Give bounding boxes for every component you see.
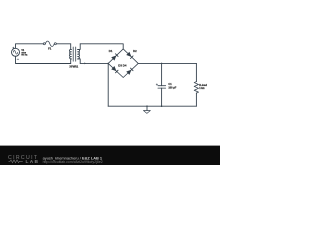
svg-text:100 µF: 100 µF [168, 87, 176, 90]
wire secondary top to bridge top [80, 44, 123, 49]
svg-text:D4: D4 [123, 64, 127, 68]
capacitor C1 plates [158, 86, 166, 88]
wire left vertex down to bottom rail [107, 63, 109, 106]
current arrow on secondary bottom wire [84, 63, 86, 65]
diode D4 (bottom vertex -> right vertex) [126, 68, 133, 75]
diode D2 (top vertex -> right vertex) [126, 52, 133, 59]
transformer XFMR1 primary [69, 44, 71, 64]
resistor R-load lead bottom [195, 93, 197, 106]
diode D3 (left vertex -> bottom vertex) [111, 66, 118, 73]
svg-text:LAB: LAB [26, 159, 40, 165]
svg-text:http://circuitlab.com/c8zt2u99: http://circuitlab.com/c8zt2u99kcfy2j8e2 [43, 160, 103, 164]
footer logo waveform [9, 160, 23, 163]
svg-text:D3: D3 [118, 64, 122, 68]
ground stub [146, 106, 148, 110]
svg-text:D2: D2 [133, 49, 137, 53]
wire secondary bottom to bridge left vertex [80, 62, 108, 64]
capacitor C1 branch top [161, 63, 163, 85]
svg-text:F1: F1 [48, 46, 52, 50]
svg-text:60 Hz: 60 Hz [21, 55, 28, 57]
resistor R-load zigzag [194, 82, 198, 94]
svg-text:XFMR1: XFMR1 [69, 65, 78, 69]
wire fuse to transformer [56, 43, 70, 45]
transformer core [73, 47, 76, 61]
bottom rail [108, 105, 196, 107]
transformer XFMR1 secondary [78, 44, 81, 64]
bridge diamond edges [108, 49, 138, 78]
wire top rail left [16, 44, 44, 49]
svg-text:1 kΩ: 1 kΩ [199, 87, 204, 90]
voltage source V1 [12, 47, 20, 59]
svg-text:D1: D1 [109, 49, 113, 53]
junction dots [84, 63, 162, 107]
fuse F1 [43, 41, 56, 46]
wire right vertex to load rail [138, 62, 196, 64]
resistor R-load lead top [195, 63, 197, 81]
diode D1 (left vertex -> top vertex) [111, 53, 118, 60]
capacitor plus sign [156, 84, 158, 86]
ground triangle [143, 111, 150, 114]
footer bar [0, 146, 220, 165]
capacitor C1 branch bottom [161, 88, 163, 106]
wire source bottom / primary bottom rail [16, 56, 71, 63]
